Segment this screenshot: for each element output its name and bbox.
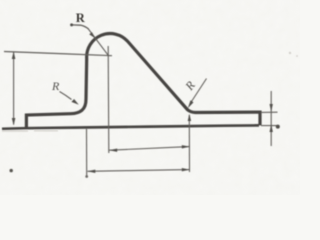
lower width left arrowhead xyxy=(87,170,95,173)
sheet profile (top surface with bead) xyxy=(26,34,260,129)
thickness dimension vertical line xyxy=(270,91,272,146)
top radius leader tail from R xyxy=(72,25,89,29)
small up arrow at bead foot xyxy=(188,114,191,121)
lower width right arrowhead xyxy=(182,168,190,171)
leader tail dot xyxy=(70,23,73,26)
upper width right arrowhead xyxy=(182,145,190,148)
thickness arrow up xyxy=(270,124,273,132)
thickness bottom extension line xyxy=(261,125,279,127)
paper mottling xyxy=(0,0,1,1)
left R leader arrowhead xyxy=(71,99,78,105)
thickness arrow down xyxy=(270,104,273,112)
height dimension line (left, x~13.5) xyxy=(13,53,15,125)
extension line right of bead foot (x~189.4) xyxy=(188,115,190,172)
faint bleed-through dashes lower left xyxy=(2,130,58,132)
sheet bottom surface line xyxy=(2,125,259,128)
extension line below left wall (x~86.6) xyxy=(86,129,88,178)
faint specks top right xyxy=(289,52,291,54)
right R leader arrowhead xyxy=(188,100,194,108)
upper width dimension line xyxy=(109,147,189,151)
blob at extension line end xyxy=(85,175,88,178)
right R leader line xyxy=(192,79,207,102)
ink speck lower left xyxy=(10,169,13,172)
lower width dimension line xyxy=(88,170,190,172)
left R leader line xyxy=(60,92,72,100)
top radius arrowhead on arc xyxy=(89,32,95,38)
radius center vertical line (x~108.5) xyxy=(107,46,110,153)
height extension line (top, y~52-56) xyxy=(4,52,112,56)
top radius leader line to center xyxy=(88,29,108,56)
height dim arrow up xyxy=(12,52,16,60)
upper width left arrowhead xyxy=(109,149,117,152)
height dim arrow down xyxy=(12,118,16,126)
thickness top extension line xyxy=(261,111,278,113)
ink dot right of thickness dim xyxy=(276,125,280,129)
paper background xyxy=(0,0,300,195)
